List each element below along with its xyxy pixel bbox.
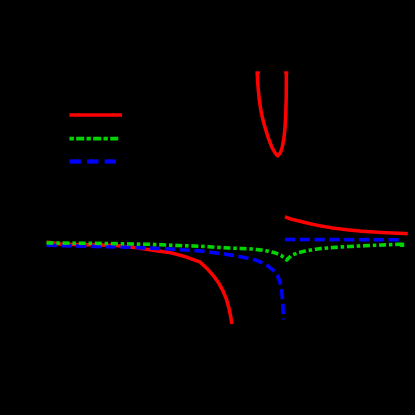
red curve U branch between poles (clipped at top y=72) [257,72,286,156]
red curve right branch flattening to asymptote [285,217,408,234]
red curve left branch descending to pole at x~231 [47,242,232,324]
blue dashed curve right branch horizontal asymptote [285,238,400,242]
red U right arm top clip cap [284,71,288,73]
legend green dash-dot line sample [70,137,120,141]
legend red solid line sample [70,113,123,116]
red U left arm top clip cap [255,71,260,73]
green dash-dot curve with dip at x~286.5 [47,243,405,260]
green dash-dot end dot [400,243,404,247]
blue dashed curve left branch descending to pole at x~283.5 [47,245,284,319]
legend blue dashed line sample [70,159,118,163]
